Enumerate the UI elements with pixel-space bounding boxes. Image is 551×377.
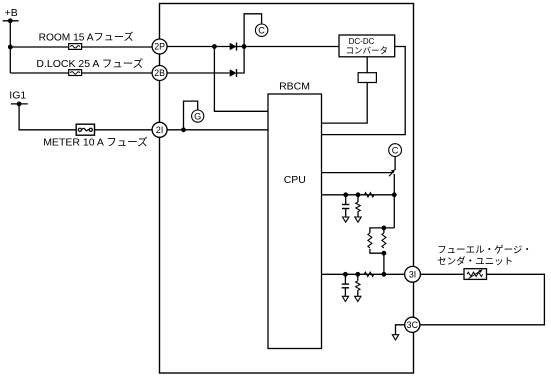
wire C down bbox=[394, 156, 396, 170]
wire ROOM line bbox=[10, 46, 153, 48]
node +B bbox=[3, 18, 19, 23]
wire down to network line 2 bbox=[383, 253, 385, 274]
junction G branch bbox=[181, 127, 186, 132]
svg-text:2B: 2B bbox=[154, 68, 165, 78]
connector C right bbox=[389, 144, 402, 157]
junction capacitor branch 2 bbox=[343, 272, 348, 277]
RBCM outer box bbox=[160, 4, 414, 374]
svg-text:RBCM: RBCM bbox=[279, 80, 310, 92]
svg-text:ROOM 15 Aフューズ: ROOM 15 Aフューズ bbox=[39, 31, 134, 44]
wire D2 up to 2P node bbox=[237, 47, 245, 74]
wire IG1 to METER fuse bbox=[19, 104, 153, 130]
junction resistor branch 2 bbox=[355, 272, 360, 277]
svg-text:C: C bbox=[258, 26, 265, 36]
sender resistor box bbox=[464, 269, 487, 280]
junction diode output node bbox=[242, 44, 247, 49]
resistor R2 vertical bbox=[356, 195, 360, 217]
svg-text:2I: 2I bbox=[156, 125, 163, 135]
wire D.LOCK line bbox=[10, 72, 153, 74]
svg-text:コンバータ: コンバータ bbox=[346, 45, 389, 55]
svg-text:C: C bbox=[392, 146, 399, 156]
ground under R6 bbox=[355, 296, 361, 301]
wire 2P to DC-DC bbox=[166, 46, 339, 48]
resistor R1 horizontal bbox=[364, 193, 374, 197]
svg-text:D.LOCK 25 A フューズ: D.LOCK 25 A フューズ bbox=[36, 57, 143, 70]
connector 2B bbox=[152, 66, 167, 81]
connector C top bbox=[255, 24, 267, 36]
wire 2P branch down into CPU bbox=[214, 47, 268, 112]
node IG1 bbox=[11, 102, 28, 107]
wire network line 1 bbox=[322, 194, 395, 196]
capacitor C2 bbox=[342, 274, 349, 296]
connector G bbox=[192, 110, 204, 122]
wire hook to C (top) bbox=[244, 14, 262, 47]
junction resistor branch 1 bbox=[356, 192, 361, 197]
ground at 3C bbox=[392, 335, 398, 340]
svg-text:METER 10 A フューズ: METER 10 A フューズ bbox=[43, 135, 148, 148]
svg-text:IG1: IG1 bbox=[9, 90, 26, 102]
wire network line 2 bbox=[322, 273, 406, 275]
wire 3I to sender bbox=[420, 273, 464, 275]
ground under R2 bbox=[355, 217, 361, 222]
junction bottom rail bbox=[382, 251, 387, 256]
svg-text:フューエル・ゲージ・: フューエル・ゲージ・ bbox=[437, 244, 532, 256]
fuse METER 10A bbox=[76, 124, 94, 135]
transistor arrow bbox=[389, 169, 395, 176]
junction top rail bbox=[382, 226, 387, 231]
diode D1 on 2P line bbox=[230, 43, 237, 51]
junction capacitor branch 1 bbox=[343, 192, 348, 197]
svg-text:2P: 2P bbox=[154, 42, 165, 52]
wire ground hook at 3C bbox=[396, 325, 405, 335]
wire transistor down bbox=[393, 174, 395, 228]
fuse ROOM 15A bbox=[69, 44, 82, 50]
connector 2I bbox=[152, 122, 167, 137]
wire hook to G bbox=[184, 101, 198, 130]
junction from parallel resistors bbox=[382, 272, 387, 277]
svg-text:3C: 3C bbox=[407, 320, 419, 330]
resistor R5 horizontal bbox=[364, 272, 374, 276]
resistor R4 vertical bbox=[382, 228, 386, 248]
wire DC-DC bottom bbox=[366, 57, 368, 73]
wire parallel-resistor top rail bbox=[370, 228, 394, 233]
resistor R6 vertical bbox=[356, 274, 360, 296]
junction 2P branch bbox=[212, 44, 217, 49]
capacitor C1 bbox=[342, 195, 349, 217]
ground under C2 bbox=[342, 296, 348, 301]
wire DC-DC right to CPU bbox=[322, 47, 406, 135]
diode D2 on 2B line bbox=[230, 69, 237, 77]
wire +B vertical bbox=[9, 21, 11, 73]
resistor R3 vertical bbox=[368, 233, 384, 253]
CPU box bbox=[268, 94, 322, 349]
wire sender loop to 3C bbox=[420, 274, 545, 325]
wire CPU base line bbox=[322, 172, 393, 174]
svg-text:3I: 3I bbox=[409, 269, 416, 279]
junction ROOM branch bbox=[8, 45, 13, 50]
ground under C1 bbox=[343, 217, 349, 222]
svg-text:センダ・ユニット: センダ・ユニット bbox=[437, 256, 513, 268]
connector 2P bbox=[152, 39, 167, 54]
svg-text:+B: +B bbox=[5, 7, 18, 19]
connector 3I bbox=[405, 266, 421, 282]
fuse D.LOCK 25A bbox=[69, 70, 82, 76]
wire component to CPU bbox=[322, 83, 368, 124]
svg-text:CPU: CPU bbox=[284, 174, 306, 186]
junction at network line 1 bbox=[392, 192, 397, 197]
DC-DC converter box U1 bbox=[339, 35, 395, 57]
wire 2B to diode bbox=[166, 72, 229, 74]
connector 3C bbox=[405, 317, 420, 332]
svg-text:G: G bbox=[194, 112, 201, 122]
component box below DC-DC bbox=[358, 73, 376, 83]
wire 2I into CPU bbox=[166, 129, 268, 131]
